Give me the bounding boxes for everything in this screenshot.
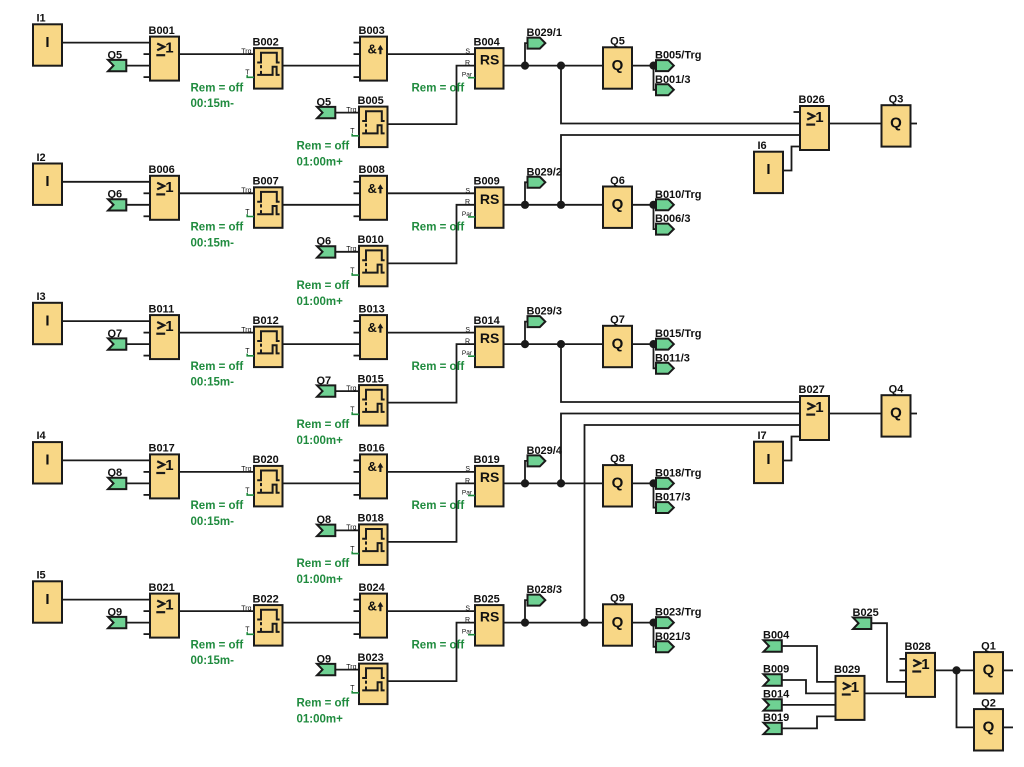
output flag B028/3 <box>527 584 562 606</box>
svg-text:Rem = off: Rem = off <box>412 361 465 373</box>
output block Q8 <box>603 453 632 506</box>
output block Q1 <box>974 640 1003 693</box>
wire B007 output to B008 input 3 <box>283 204 361 206</box>
input flag B004 <box>763 630 790 652</box>
wire Q7 output to flags <box>632 343 657 345</box>
svg-text:00:15m-: 00:15m- <box>191 237 235 249</box>
input flag Q5 <box>108 49 127 71</box>
junction row3 net feeder <box>557 340 565 348</box>
input flag Q9 (to B023) <box>317 653 336 675</box>
wire flag Q6 to B010 Trg <box>335 251 359 253</box>
svg-text:B006: B006 <box>149 164 175 176</box>
svg-text:I: I <box>766 161 770 178</box>
svg-text:Rem = off: Rem = off <box>297 558 350 570</box>
wire down to flag B017/3 <box>654 483 657 507</box>
svg-text:I: I <box>45 452 49 469</box>
svg-text:B018: B018 <box>358 513 384 525</box>
wire B008 output to B009 S input <box>387 192 475 194</box>
svg-text:R: R <box>465 617 470 624</box>
wire B016 output to B019 S input <box>387 471 475 473</box>
output flag B029/1 <box>527 27 562 49</box>
svg-text:RS: RS <box>480 609 499 625</box>
wire flag Q5 to B005 Trg <box>335 112 359 114</box>
RS latch B009 <box>462 176 504 228</box>
svg-text:Rem = off: Rem = off <box>191 82 244 94</box>
wire row2 net to B026 input 3 <box>561 135 800 205</box>
svg-text:I: I <box>45 34 49 51</box>
wire B012 output to B013 input 3 <box>283 343 361 345</box>
svg-text:Trg: Trg <box>241 327 251 334</box>
wire flag Q7 to B011 input 3 <box>126 343 151 345</box>
svg-text:B023: B023 <box>358 652 384 664</box>
parameter text B020 <box>191 500 244 528</box>
svg-text:B013: B013 <box>359 303 385 315</box>
wire B026 output to Q3 <box>829 123 882 125</box>
svg-text:1: 1 <box>165 597 173 614</box>
wire flag B004 to B029 input 1 <box>781 646 836 682</box>
parameter text B010 <box>297 280 350 308</box>
input block I7 <box>754 430 783 483</box>
junction Q8 output <box>649 479 657 487</box>
input block I1 <box>33 13 62 66</box>
svg-text:Q1: Q1 <box>981 640 996 652</box>
wire Q4 output stub <box>910 413 917 415</box>
svg-text:B004: B004 <box>474 36 501 48</box>
edge AND block B013 <box>354 303 388 359</box>
wire B029 output to B028 input 4 <box>865 692 907 694</box>
output block Q9 <box>603 593 632 646</box>
output block Q7 <box>603 314 632 367</box>
svg-text:I5: I5 <box>37 570 46 582</box>
svg-text:Trg: Trg <box>241 605 251 612</box>
wire I3 to B011 input 1 <box>61 320 150 322</box>
junction row1 net feeder <box>557 62 565 70</box>
parameter text B015 <box>297 419 350 447</box>
svg-text:B001: B001 <box>149 25 175 37</box>
OR block B026 <box>794 94 830 150</box>
output flag B029/2 <box>527 166 562 188</box>
wire flag B025 to B028 input 3 <box>871 623 907 682</box>
wire down to flag B011/3 <box>654 344 657 368</box>
junction row2 net feeder <box>557 201 565 209</box>
wire B014 output to Q7 block <box>504 343 604 345</box>
parameter text B009 <box>412 222 465 234</box>
svg-text:Trg: Trg <box>346 664 356 671</box>
RS latch B004 <box>462 36 504 88</box>
junction B004 output / flag B029/1 <box>521 62 529 70</box>
svg-text:B020: B020 <box>253 454 279 466</box>
wire flag B009 to B029 input 2 <box>781 680 836 693</box>
input flag B025 <box>853 607 879 629</box>
wire Q9 output to flags <box>632 622 657 624</box>
svg-text:R: R <box>465 60 470 67</box>
svg-text:I3: I3 <box>37 291 46 303</box>
wire B021 output to B022 Trg <box>179 610 254 612</box>
svg-text:B017: B017 <box>149 443 175 455</box>
wire flag B014 to B029 input 3 <box>781 704 836 706</box>
output block Q2 <box>974 697 1003 750</box>
svg-text:1: 1 <box>921 656 929 673</box>
svg-text:&: & <box>368 42 377 57</box>
output block Q4 <box>882 383 911 436</box>
svg-text:Rem = off: Rem = off <box>191 222 244 234</box>
input block I5 <box>33 570 62 623</box>
junction Q5 output <box>649 62 657 70</box>
svg-text:B015: B015 <box>358 373 384 385</box>
wire flag B029/3 down to output net <box>525 322 528 345</box>
wire flag Q7 to B015 Trg <box>335 390 359 392</box>
parameter text B014 <box>412 361 465 373</box>
svg-text:Trg: Trg <box>241 48 251 55</box>
svg-text:B012: B012 <box>253 315 279 327</box>
output flag B029/4 <box>527 445 563 467</box>
wire B011 output to B012 Trg <box>179 332 254 334</box>
pulse relay B002 <box>241 36 282 88</box>
svg-text:RS: RS <box>480 52 499 68</box>
svg-text:&: & <box>368 599 377 614</box>
junction B025 output / flag B028/3 <box>521 619 529 627</box>
svg-text:RS: RS <box>480 330 499 346</box>
input flag Q8 <box>108 467 127 489</box>
svg-text:&: & <box>368 320 377 335</box>
wire B020 output to B016 input 3 <box>283 482 361 484</box>
wire I1 to B001 input 1 <box>61 42 150 44</box>
svg-text:B011: B011 <box>149 303 175 315</box>
output flag B001/3 <box>655 74 690 96</box>
input block I6 <box>754 140 783 193</box>
OR block B028 <box>900 641 936 697</box>
input flag Q5 (to B005) <box>317 96 336 118</box>
svg-text:Trg: Trg <box>346 246 356 253</box>
wire B013 output to B014 S input <box>387 332 475 334</box>
output block Q5 <box>603 36 632 89</box>
wire flag B029/4 down to output net <box>525 461 528 484</box>
edge AND block B008 <box>354 164 388 220</box>
wire row5 net to B027 input 3 <box>585 425 801 623</box>
svg-text:B009: B009 <box>474 176 500 188</box>
svg-text:Q: Q <box>890 115 902 132</box>
svg-text:B016: B016 <box>359 443 385 455</box>
svg-text:I6: I6 <box>758 140 767 152</box>
svg-text:Rem = off: Rem = off <box>297 141 350 153</box>
svg-text:B002: B002 <box>253 36 279 48</box>
svg-text:Q: Q <box>612 475 624 492</box>
svg-text:Q: Q <box>612 614 624 631</box>
wire Q6 output to flags <box>632 204 657 206</box>
svg-text:B007: B007 <box>253 176 279 188</box>
input flag Q7 (to B015) <box>317 375 336 397</box>
junction B019 output / flag B029/4 <box>521 479 529 487</box>
svg-text:Rem = off: Rem = off <box>412 639 465 651</box>
svg-text:B025: B025 <box>474 593 500 605</box>
svg-text:Q: Q <box>612 335 624 352</box>
wire row4 net to B027 input 2 <box>561 414 800 484</box>
svg-text:B003: B003 <box>359 25 385 37</box>
wire row1 net to B026 input 2 <box>561 66 800 124</box>
svg-text:I: I <box>45 173 49 190</box>
svg-text:S: S <box>465 327 470 334</box>
parameter text B018 <box>297 558 350 586</box>
svg-text:Q4: Q4 <box>889 383 905 395</box>
output flag B029/3 <box>527 306 562 328</box>
parameter text B002 <box>191 82 244 110</box>
svg-text:Rem = off: Rem = off <box>412 82 465 94</box>
pulse relay B007 <box>241 176 282 228</box>
OR block B017 <box>144 443 180 499</box>
input flag Q8 (to B018) <box>317 514 336 536</box>
wire flag Q8 to B018 Trg <box>335 529 359 531</box>
wire I6 to B026 input 4 <box>782 147 800 171</box>
edge AND block B016 <box>354 443 388 499</box>
parameter text B012 <box>191 361 244 389</box>
svg-text:B021: B021 <box>149 582 175 594</box>
wire B004 output to Q5 block <box>504 65 604 67</box>
svg-text:Trg: Trg <box>346 525 356 532</box>
wire Q8 output to flags <box>632 482 657 484</box>
input flag B009 <box>763 664 789 686</box>
input flag B019 <box>763 712 789 734</box>
OR block B021 <box>144 582 180 638</box>
wire B010 output to B009 R input <box>388 205 476 264</box>
input flag Q6 <box>108 189 127 211</box>
svg-text:Q5: Q5 <box>610 36 625 48</box>
output flag B005/Trg <box>655 50 701 72</box>
svg-text:S: S <box>465 188 470 195</box>
svg-text:R: R <box>465 199 470 206</box>
input flag B014 <box>763 689 790 711</box>
wire B002 output to B003 input 3 <box>283 65 361 67</box>
input block I2 <box>33 152 62 205</box>
svg-text:Q: Q <box>890 405 902 422</box>
svg-text:S: S <box>465 466 470 473</box>
pulse relay B018 <box>346 513 387 565</box>
svg-text:00:15m-: 00:15m- <box>191 377 235 389</box>
svg-text:Q: Q <box>983 719 995 736</box>
svg-text:B029: B029 <box>834 664 860 676</box>
svg-text:B022: B022 <box>253 593 279 605</box>
svg-text:S: S <box>465 49 470 56</box>
parameter text B022 <box>191 639 244 667</box>
OR block B027 <box>799 384 830 440</box>
svg-text:B010: B010 <box>358 234 384 246</box>
wire B025 output to Q9 block <box>504 622 604 624</box>
svg-text:1: 1 <box>165 457 173 474</box>
junction Q6 output <box>649 201 657 209</box>
svg-text:Q: Q <box>983 662 995 679</box>
svg-text:Trg: Trg <box>346 107 356 114</box>
wire I4 to B017 input 1 <box>61 459 150 461</box>
svg-text:1: 1 <box>165 40 173 57</box>
svg-text:Rem = off: Rem = off <box>191 361 244 373</box>
wire flag B029/1 down to output net <box>525 43 528 66</box>
svg-text:00:15m-: 00:15m- <box>191 98 235 110</box>
parameter text B025 <box>412 639 465 651</box>
input flag Q9 <box>108 606 127 628</box>
wire B018 output to B019 R input <box>388 483 476 542</box>
svg-text:Q: Q <box>612 196 624 213</box>
OR block B001 <box>144 25 180 81</box>
wire flag Q9 to B021 input 3 <box>126 622 151 624</box>
RS latch B025 <box>462 593 504 645</box>
input block I3 <box>33 291 62 344</box>
pulse relay B015 <box>346 373 387 425</box>
edge AND block B024 <box>354 582 388 638</box>
svg-text:B027: B027 <box>799 384 825 396</box>
wire B006 output to B007 Trg <box>179 192 254 194</box>
wire I5 to B021 input 1 <box>61 599 150 601</box>
output flag B018/Trg <box>655 467 701 489</box>
svg-text:Rem = off: Rem = off <box>412 222 465 234</box>
wire B028 output to Q1 <box>935 669 974 671</box>
wire B005 output to B004 R input <box>388 66 476 125</box>
svg-text:I7: I7 <box>758 430 767 442</box>
pulse relay B010 <box>346 234 387 286</box>
output flag B010/Trg <box>655 189 701 211</box>
svg-text:Q7: Q7 <box>610 314 625 326</box>
parameter text B023 <box>297 698 350 726</box>
svg-text:B026: B026 <box>799 94 825 106</box>
svg-text:01:00m+: 01:00m+ <box>297 157 344 169</box>
svg-text:Rem = off: Rem = off <box>297 280 350 292</box>
pulse relay B005 <box>346 95 387 147</box>
svg-text:01:00m+: 01:00m+ <box>297 714 344 726</box>
junction row4 net feeder <box>557 479 565 487</box>
svg-text:I: I <box>45 312 49 329</box>
svg-text:1: 1 <box>851 679 859 696</box>
wire flag B028/3 down to output net <box>525 600 528 623</box>
svg-text:B014: B014 <box>474 315 501 327</box>
RS latch B019 <box>462 454 504 506</box>
output flag B011/3 <box>655 352 690 374</box>
junction B014 output / flag B029/3 <box>521 340 529 348</box>
svg-text:Q9: Q9 <box>610 593 625 605</box>
svg-text:01:00m+: 01:00m+ <box>297 296 344 308</box>
parameter text B004 <box>412 82 465 94</box>
svg-text:Trg: Trg <box>241 466 251 473</box>
output flag B015/Trg <box>655 328 701 350</box>
input flag Q6 (to B010) <box>317 236 336 258</box>
junction B009 output / flag B029/2 <box>521 201 529 209</box>
wire flag B029/2 down to output net <box>525 182 528 205</box>
output block Q3 <box>882 93 911 146</box>
wire flag Q5 to B001 input 3 <box>126 65 151 67</box>
svg-text:&: & <box>368 459 377 474</box>
svg-text:B028: B028 <box>905 641 931 653</box>
svg-text:B024: B024 <box>359 582 386 594</box>
output block Q6 <box>603 175 632 228</box>
svg-text:Rem = off: Rem = off <box>297 698 350 710</box>
svg-text:Q2: Q2 <box>981 697 996 709</box>
wire Q1 output stub <box>1003 669 1014 671</box>
svg-text:B008: B008 <box>359 164 385 176</box>
svg-text:1: 1 <box>815 399 823 416</box>
svg-text:&: & <box>368 181 377 196</box>
svg-text:00:15m-: 00:15m- <box>191 516 235 528</box>
svg-text:I1: I1 <box>37 13 46 25</box>
wire B015 output to B014 R input <box>388 344 476 403</box>
junction B028 output <box>952 666 960 674</box>
parameter text B005 <box>297 141 350 169</box>
wire flag Q8 to B017 input 3 <box>126 482 151 484</box>
wire B024 output to B025 S input <box>387 610 475 612</box>
svg-text:B005: B005 <box>358 95 384 107</box>
svg-text:Rem = off: Rem = off <box>412 500 465 512</box>
wire I2 to B006 input 1 <box>61 181 150 183</box>
pulse relay B012 <box>241 315 282 367</box>
wire flag Q6 to B006 input 3 <box>126 204 151 206</box>
wire row3 net to B027 input 1 <box>561 344 800 402</box>
edge AND block B003 <box>354 25 388 81</box>
svg-text:Rem = off: Rem = off <box>297 419 350 431</box>
svg-text:I2: I2 <box>37 152 46 164</box>
parameter text B007 <box>191 222 244 250</box>
wire Q3 output stub <box>910 123 917 125</box>
wire flag B019 to B029 input 4 <box>781 716 836 728</box>
wire B022 output to B024 input 3 <box>283 622 361 624</box>
svg-text:I4: I4 <box>37 430 47 442</box>
RS latch B014 <box>462 315 504 367</box>
wire B017 output to B020 Trg <box>179 471 254 473</box>
svg-text:00:15m-: 00:15m- <box>191 655 235 667</box>
wire down to flag B021/3 <box>654 623 657 647</box>
svg-text:1: 1 <box>165 318 173 335</box>
output flag B023/Trg <box>655 607 701 629</box>
svg-text:01:00m+: 01:00m+ <box>297 574 344 586</box>
wire B027 output to Q4 <box>828 413 882 415</box>
output flag B017/3 <box>655 492 690 513</box>
wire Q5 output to flags <box>632 65 657 67</box>
svg-text:RS: RS <box>480 469 499 485</box>
OR block B011 <box>144 303 180 359</box>
wire B009 output to Q6 block <box>504 204 604 206</box>
junction Q9 output <box>649 619 657 627</box>
wire I7 to B027 input 4 <box>782 437 800 461</box>
wire B001 output to B002 Trg <box>179 53 254 55</box>
output flag B021/3 <box>655 631 690 653</box>
svg-text:Rem = off: Rem = off <box>191 639 244 651</box>
svg-text:1: 1 <box>815 109 823 126</box>
wire Q2 output stub <box>1003 726 1014 728</box>
wire flag Q9 to B023 Trg <box>335 669 359 671</box>
wire down to flag B006/3 <box>654 205 657 229</box>
svg-text:Trg: Trg <box>241 188 251 195</box>
input flag Q7 <box>108 328 127 350</box>
parameter text B019 <box>412 500 465 512</box>
OR block B006 <box>144 164 180 220</box>
junction row5 net feeder <box>580 619 588 627</box>
wire B028 output down to Q2 <box>957 670 975 727</box>
svg-text:I: I <box>766 451 770 468</box>
svg-text:R: R <box>465 339 470 346</box>
pulse relay B022 <box>241 593 282 645</box>
svg-text:Rem = off: Rem = off <box>191 500 244 512</box>
output flag B006/3 <box>655 213 690 235</box>
svg-text:Trg: Trg <box>346 385 356 392</box>
svg-text:Q: Q <box>612 57 624 74</box>
svg-text:R: R <box>465 478 470 485</box>
svg-text:Q6: Q6 <box>610 175 625 187</box>
wire B023 output to B025 R input <box>388 623 476 682</box>
pulse relay B020 <box>241 454 282 506</box>
svg-text:Q3: Q3 <box>889 93 904 105</box>
pulse relay B023 <box>346 652 387 704</box>
OR block B029 <box>834 664 865 720</box>
wire B019 output to Q8 block <box>504 482 604 484</box>
svg-text:RS: RS <box>480 191 499 207</box>
wire down to flag B001/3 <box>654 66 657 90</box>
input block I4 <box>33 430 62 483</box>
svg-text:01:00m+: 01:00m+ <box>297 435 344 447</box>
